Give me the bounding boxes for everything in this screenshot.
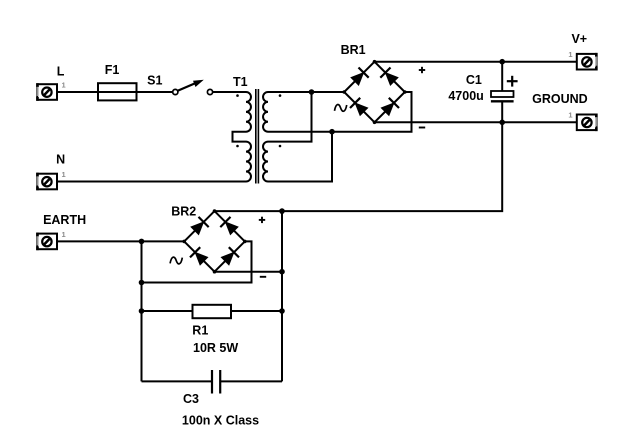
BR1 ac squiggle [335, 105, 347, 112]
BR2 ac squiggle [170, 257, 182, 264]
svg-text:GROUND: GROUND [532, 92, 588, 106]
node junction V+ rail [499, 59, 505, 65]
switch S1 [173, 80, 213, 95]
node junction R1 left [139, 308, 145, 314]
core [255, 89, 257, 184]
phase dots [236, 94, 239, 97]
BR1 plus [419, 67, 425, 73]
wire switch to T1 primary [213, 91, 246, 93]
svg-text:V+: V+ [571, 32, 587, 46]
svg-text:BR1: BR1 [341, 43, 366, 57]
D-bottom-left [354, 102, 368, 116]
node junction return/left rail [139, 280, 145, 286]
svg-text:1: 1 [62, 81, 66, 90]
primary winding 1 [246, 92, 251, 132]
BR2 plus [259, 217, 265, 223]
secondary winding 1 [263, 92, 268, 132]
wire EARTH to BR2 left vertex [58, 240, 184, 242]
D-right-top [385, 72, 399, 86]
svg-text:N: N [56, 153, 65, 167]
D-bottom-left [194, 252, 208, 266]
svg-text:R1: R1 [192, 324, 208, 338]
node junction secondary bottom [329, 129, 335, 135]
terminal V+ [577, 53, 598, 71]
primary winding 2 [246, 142, 251, 182]
svg-text:10R 5W: 10R 5W [193, 341, 238, 355]
svg-text:1: 1 [568, 50, 572, 59]
wire BR2 right vertex return to earth rail [142, 241, 252, 282]
capacitor C1 [491, 62, 514, 123]
D-left-top [190, 221, 204, 235]
D-bottom-right [221, 252, 235, 266]
svg-text:1: 1 [62, 230, 66, 239]
fuse F1 [98, 83, 137, 100]
clamp right rail down [281, 211, 283, 381]
svg-text:100n X Class: 100n X Class [182, 414, 259, 428]
capacitor C3 [142, 370, 283, 394]
wire secondary w1 bottom to BR1 right side [268, 92, 412, 132]
svg-text:T1: T1 [233, 75, 248, 89]
D-left-top [350, 72, 364, 86]
node junction GROUND rail [499, 120, 505, 126]
wire BR1 - output to GROUND [375, 121, 577, 123]
svg-text:4700u: 4700u [448, 89, 483, 103]
svg-text:C1: C1 [466, 73, 482, 87]
transformer T1 [233, 89, 282, 184]
wire L terminal to fuse to switch [58, 91, 173, 93]
wire secondary top to BR1 left vertex [268, 91, 344, 93]
C1 plus symbol [507, 76, 518, 87]
node junction R1 right [279, 308, 285, 314]
node junction clamp top [279, 208, 285, 214]
node junction clamp bottom vertex line [279, 269, 285, 275]
BR1 minus [419, 127, 425, 129]
svg-text:F1: F1 [105, 63, 120, 77]
resistor R1 [142, 305, 283, 318]
terminal N [36, 173, 57, 191]
node junction secondary top [309, 89, 315, 95]
wire parallel link bottom: node down and to winding 2 bottom [268, 132, 332, 182]
D-bottom-right [381, 102, 395, 116]
wire BR2 bottom vertex to clamp rail [215, 271, 283, 273]
terminal GROUND [577, 114, 598, 132]
D-right-top [225, 221, 239, 235]
wire ground rail down to BR2 clamp [215, 122, 503, 211]
bridge BR2 [182, 209, 246, 273]
wire N to primary [58, 181, 246, 183]
terminal EARTH [36, 233, 57, 251]
terminal L [36, 83, 57, 101]
svg-text:S1: S1 [147, 74, 162, 88]
bridge BR1 [342, 60, 406, 124]
svg-text:C3: C3 [183, 392, 199, 406]
node junction EARTH rail [139, 239, 145, 245]
svg-text:1: 1 [62, 170, 66, 179]
earth left rail down [141, 241, 143, 381]
svg-text:L: L [57, 65, 65, 79]
wire BR1 + output to V+ [375, 61, 577, 63]
svg-text:BR2: BR2 [171, 205, 196, 219]
svg-text:EARTH: EARTH [43, 213, 86, 227]
svg-text:1: 1 [568, 110, 572, 119]
wire parallel link top: node down and to winding 2 top [268, 92, 312, 142]
BR2 minus [260, 276, 266, 278]
primary series jog [233, 132, 247, 142]
secondary winding 2 [263, 142, 268, 182]
